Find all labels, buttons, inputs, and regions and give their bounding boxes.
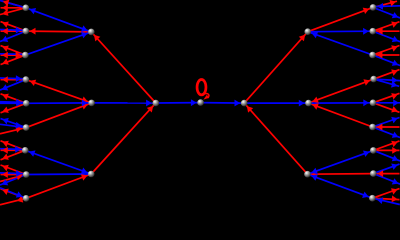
arrowhead at (398,142) bbox=[391, 141, 398, 147]
wire Lf to P1 bbox=[26, 103, 92, 128]
wire H3 to Ra bbox=[308, 7, 373, 31]
wire (26,103)-(0,94) bbox=[1, 94, 27, 104]
wire (373,31)-(400,22) bbox=[373, 22, 400, 32]
node Rg bbox=[370, 147, 377, 154]
wire (26,174)-(0,185) bbox=[0, 175, 26, 186]
arrowhead at (398,189) bbox=[391, 188, 398, 194]
arrowhead at (2,31) bbox=[2, 28, 8, 35]
wire (373,127)-(400,138) bbox=[373, 127, 400, 138]
arrowhead at (2,14) bbox=[2, 9, 9, 16]
arrowhead at (398,86) bbox=[391, 81, 398, 88]
wire Rh to H4 bbox=[308, 173, 374, 176]
wire (373,150)-(400,150) bbox=[373, 149, 399, 151]
node H1 bbox=[88, 29, 95, 36]
wire (400,204)-(372,198) bbox=[372, 198, 399, 204]
arrowhead at (22,30) bbox=[16, 27, 22, 34]
arrowhead at (17,201) bbox=[17, 196, 24, 203]
wire (26,8)-(2,1) bbox=[2, 1, 26, 8]
node Ld bbox=[23, 76, 30, 83]
wire (374,79)-(400,81) bbox=[374, 79, 400, 81]
node H2 bbox=[88, 171, 95, 178]
arrowhead at (377,55) bbox=[377, 52, 383, 59]
arrowhead into Rb bbox=[363, 28, 369, 35]
wire H1 to La bbox=[26, 8, 92, 32]
arrowhead into H4 bbox=[311, 168, 318, 174]
node H3 bbox=[305, 28, 312, 35]
wire (26,8)-(0,0) bbox=[0, 1, 26, 8]
wire (0,182)-(26,174) bbox=[0, 175, 26, 182]
arrowhead at (398,199) bbox=[392, 195, 398, 202]
wire Le to P1 bbox=[26, 102, 91, 104]
arrowhead at (396,2) bbox=[390, 0, 397, 6]
wire (0,124)-(26,128) bbox=[0, 124, 26, 127]
arrowhead at (2,55) bbox=[2, 52, 8, 59]
arrowhead at (398,165) bbox=[391, 164, 398, 170]
arrowhead at (21,149) bbox=[15, 146, 21, 153]
arrowhead at (3,1) bbox=[3, 0, 10, 6]
wire (373,55)-(400,55) bbox=[373, 54, 400, 56]
wire (26,31)-(0,22) bbox=[1, 22, 26, 32]
wire Li to H2 bbox=[26, 174, 91, 198]
wire H3 to Rb bbox=[308, 30, 373, 33]
arrowhead at (377,199) bbox=[377, 197, 383, 204]
arrowhead into H4 bbox=[311, 174, 318, 180]
arrowhead into P1 bbox=[82, 100, 88, 107]
wire H4 to Rg bbox=[308, 150, 374, 174]
arrowhead into H2 bbox=[81, 174, 88, 180]
arrowhead at (2,159) bbox=[2, 154, 9, 160]
wire (0,102)-(25,102) bbox=[0, 101, 25, 104]
wire P1 to Ld bbox=[26, 80, 92, 103]
label 0 bbox=[197, 80, 206, 95]
wire (0,174)-(26,174) bbox=[1, 174, 27, 176]
wire Rc to H3 bbox=[308, 32, 373, 55]
arrowhead into C bbox=[191, 99, 197, 106]
arrowhead at (399,103) bbox=[393, 99, 399, 106]
arrowhead at (398,150) bbox=[392, 147, 398, 154]
arrowhead at (2,23) bbox=[2, 22, 9, 28]
arrowhead into M2 bbox=[247, 106, 253, 113]
arrowhead at (2,184) bbox=[2, 179, 9, 185]
wire (26,198)-(0,189) bbox=[1, 189, 27, 199]
wire (372,198)-(400,189) bbox=[372, 189, 399, 199]
node M2 bbox=[241, 100, 248, 107]
arrowhead into M2 bbox=[235, 100, 241, 107]
wire (0,149)-(24,150) bbox=[0, 148, 24, 151]
wire (25,150)-(0,141) bbox=[1, 141, 26, 151]
arrowhead into Re bbox=[363, 99, 369, 106]
wire (26,103)-(0,113) bbox=[1, 103, 27, 113]
wire (373,55)-(400,46) bbox=[373, 46, 400, 56]
arrowhead into Ri bbox=[362, 192, 369, 198]
wire (26,80)-(0,90) bbox=[0, 80, 26, 91]
wire M1 to H1 bbox=[91, 32, 156, 103]
wire (372,198)-(400,200) bbox=[372, 198, 399, 199]
wire P1 to M1 bbox=[92, 102, 156, 104]
wire (25,55)-(0,46) bbox=[1, 46, 26, 56]
arrowhead at (398,118) bbox=[391, 117, 398, 123]
arrowhead at (22,197) bbox=[16, 191, 23, 197]
node Le bbox=[23, 100, 30, 107]
wire (400,6)-(374,7) bbox=[374, 5, 400, 8]
arrowhead into Lg bbox=[29, 150, 36, 156]
wire M2 to P2 bbox=[244, 102, 308, 104]
wire (0,54)-(24,54) bbox=[0, 53, 24, 56]
wire (373,31)-(400,31) bbox=[373, 30, 400, 32]
wire (0,150)-(25,150) bbox=[1, 149, 26, 151]
arrowhead at (2,64) bbox=[2, 58, 9, 64]
wire (26,8)-(0,15) bbox=[0, 8, 26, 15]
wire Lc to H1 bbox=[25, 32, 91, 55]
wire (26,174)-(0,165) bbox=[1, 165, 27, 175]
arrowhead at (398,71) bbox=[391, 69, 398, 75]
wire (26,198)-(0,205) bbox=[0, 198, 26, 205]
wire (0,55)-(25,55) bbox=[1, 54, 26, 56]
wire (373,174)-(400,184) bbox=[373, 174, 400, 185]
arrowhead at (2,47) bbox=[2, 46, 9, 52]
node Ri bbox=[369, 195, 376, 202]
arrowhead at (2,166) bbox=[2, 165, 9, 171]
arrowhead into P1 bbox=[81, 97, 88, 103]
arrowhead at (2,90) bbox=[2, 84, 9, 90]
arrowhead into Rg bbox=[363, 151, 370, 157]
wire (373,55)-(400,66) bbox=[373, 55, 400, 66]
wire (373,103)-(400,112) bbox=[373, 103, 400, 113]
node Rf bbox=[369, 124, 376, 131]
arrowhead into Ra bbox=[363, 8, 370, 14]
arrowhead at (377,174) bbox=[377, 170, 383, 177]
node P2 bbox=[305, 100, 312, 107]
wire P2 to Rd bbox=[309, 79, 374, 103]
arrowhead into H3 bbox=[299, 35, 305, 42]
node Rb bbox=[370, 28, 377, 35]
arrowhead at (2,8) bbox=[2, 4, 8, 11]
node H4 bbox=[304, 171, 311, 178]
arrowhead at (22,102) bbox=[16, 99, 22, 106]
node Rd bbox=[370, 76, 377, 83]
arrowhead at (22,128) bbox=[15, 126, 22, 133]
node Li bbox=[23, 195, 30, 202]
wire M2 to H3 bbox=[244, 32, 308, 103]
node M1 bbox=[153, 100, 160, 107]
wire (373,31)-(400,42) bbox=[373, 31, 400, 42]
arrowhead into Lb bbox=[30, 28, 36, 35]
arrowhead into H4 bbox=[311, 171, 317, 178]
node Re bbox=[370, 100, 377, 107]
arrowhead at (398,160) bbox=[392, 155, 399, 161]
arrowhead at (398,46) bbox=[391, 45, 398, 51]
wire (373,7)-(397,1) bbox=[373, 1, 397, 7]
arrowhead at (398,137) bbox=[392, 132, 399, 138]
self loop at node 0 bbox=[204, 94, 209, 98]
arrowhead into La bbox=[30, 8, 37, 14]
wire (373,7)-(400,18) bbox=[373, 7, 400, 18]
arrowhead into H2 bbox=[81, 168, 88, 174]
wire H2 to M1 bbox=[91, 103, 156, 174]
node Lg bbox=[22, 147, 29, 154]
wire (25,150)-(0,160) bbox=[1, 150, 26, 160]
wire M1 to C bbox=[156, 102, 201, 104]
arrowhead at (398,80) bbox=[392, 77, 398, 84]
arrowhead into H1 bbox=[81, 25, 88, 31]
arrowhead at (398,41) bbox=[392, 36, 399, 42]
wire H4 to M2 bbox=[244, 103, 307, 174]
arrowhead at (398,23) bbox=[391, 21, 398, 27]
node Rc bbox=[369, 52, 376, 59]
wire H4 to Ri bbox=[308, 174, 373, 198]
arrowhead at (2,150) bbox=[2, 147, 8, 154]
wire (373,150)-(400,161) bbox=[373, 150, 400, 161]
arrowhead into P2 bbox=[299, 100, 305, 107]
node P1 bbox=[88, 100, 95, 107]
arrowhead at (22,174) bbox=[16, 170, 22, 177]
arrowhead at (2,190) bbox=[2, 189, 9, 195]
arrowhead at (21,55) bbox=[16, 52, 22, 59]
arrowhead into P1 bbox=[81, 103, 88, 109]
wire (374,79)-(400,70) bbox=[374, 70, 400, 80]
arrowhead at (2,174) bbox=[2, 171, 8, 178]
arrowhead at (398,111) bbox=[391, 106, 398, 112]
wire C to M2 bbox=[201, 102, 245, 105]
arrowhead at (377,127) bbox=[377, 124, 383, 131]
wire (0,188)-(26,198) bbox=[0, 188, 26, 199]
arrowhead into M1 bbox=[146, 100, 152, 107]
wire (373,150)-(400,141) bbox=[373, 141, 399, 151]
wire (0,8)-(26,8) bbox=[1, 7, 26, 9]
wire (373,127)-(400,118) bbox=[373, 118, 400, 128]
arrowhead at (2,112) bbox=[2, 107, 9, 113]
arrowhead at (22,103) bbox=[16, 100, 22, 107]
arrowhead at (2,95) bbox=[2, 94, 9, 100]
arrowhead at (2,119) bbox=[2, 118, 9, 125]
wire (0,31)-(26,31) bbox=[1, 30, 26, 32]
wire P2 to Re bbox=[309, 102, 374, 104]
arrowhead at (22,79) bbox=[16, 75, 22, 82]
wire H1 to Lb bbox=[26, 30, 92, 33]
arrowhead into P2 bbox=[312, 97, 319, 103]
arrowhead at (377,31) bbox=[377, 28, 383, 35]
node Lc bbox=[22, 52, 29, 59]
wire (0,103)-(26,103) bbox=[0, 102, 26, 104]
arrowhead at (2,80) bbox=[2, 76, 8, 83]
wire (374,79)-(399,86) bbox=[374, 79, 400, 86]
wire (26,128)-(0,119) bbox=[1, 119, 27, 128]
wire (373,127)-(400,127) bbox=[373, 126, 400, 128]
arrowhead into H1 bbox=[94, 35, 100, 42]
arrowhead into M1 bbox=[147, 106, 153, 113]
wire (25,55)-(0,65) bbox=[1, 55, 26, 65]
wire (373,103)-(400,93) bbox=[373, 93, 400, 103]
arrowhead at (398,94) bbox=[391, 93, 398, 99]
wire (26,174)-(91,174) bbox=[26, 173, 91, 176]
node C bbox=[197, 99, 204, 106]
arrowhead into Rd bbox=[363, 79, 370, 85]
arrowhead into H3 bbox=[312, 32, 319, 38]
arrowhead at (398,17) bbox=[392, 12, 399, 18]
node Lh bbox=[23, 171, 30, 178]
wire (373,174)-(400,164) bbox=[373, 164, 399, 174]
node Lb bbox=[23, 28, 30, 35]
arrowhead at (377,6) bbox=[377, 3, 383, 10]
wire (0,134)-(26,128) bbox=[0, 128, 26, 134]
node Lf bbox=[23, 124, 30, 131]
node Rh bbox=[370, 170, 377, 177]
wire (373,103)-(400,103) bbox=[373, 102, 400, 104]
wire (26,31)-(0,42) bbox=[0, 31, 26, 41]
arrowhead into Ld bbox=[30, 80, 37, 86]
arrowhead at (2,142) bbox=[2, 141, 9, 147]
arrowhead at (398,184) bbox=[392, 178, 399, 184]
node Ra bbox=[370, 4, 377, 11]
arrowhead into H1 bbox=[81, 32, 88, 38]
wire Rf to P2 bbox=[309, 103, 373, 127]
arrowhead at (23,175) bbox=[16, 174, 23, 181]
wire (373,174)-(400,174) bbox=[373, 173, 399, 175]
wire (0,30)-(25,30) bbox=[0, 29, 25, 32]
wire (0,78)-(25,79) bbox=[0, 77, 25, 80]
arrowhead at (398,65) bbox=[392, 60, 399, 66]
arrowhead at (22,126) bbox=[16, 122, 22, 129]
arrowhead into P2 bbox=[312, 103, 319, 109]
wire (0,173)-(25,174) bbox=[0, 172, 25, 175]
arrowhead at (2,41) bbox=[2, 36, 9, 42]
node La bbox=[23, 5, 30, 12]
wire (0,80)-(26,80) bbox=[1, 79, 26, 81]
wire Lg to H2 bbox=[25, 150, 91, 174]
